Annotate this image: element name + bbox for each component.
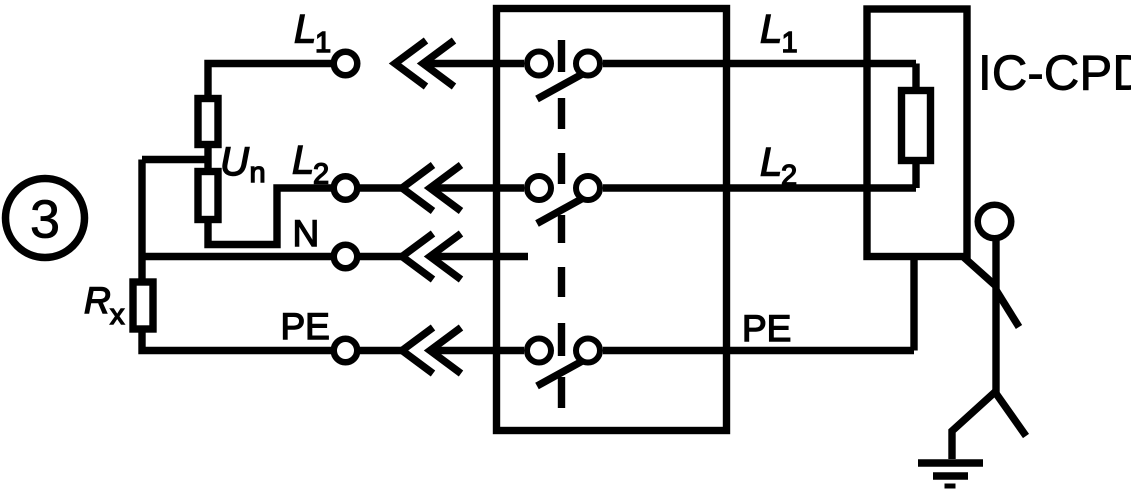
box plug/socket interface (497, 9, 727, 431)
switch L1 contact left (527, 52, 551, 76)
terminal PE (334, 339, 358, 363)
switch L2 blade (537, 197, 586, 224)
wire L1 top-left from Un to terminal (208, 64, 331, 96)
wire Un bottom to L2 terminal (208, 188, 331, 245)
dashed linkage line (558, 40, 565, 408)
arrow chevrons N (402, 234, 461, 280)
svg-text:IC-CPD: IC-CPD (978, 47, 1131, 101)
wire PE shaft (430, 347, 524, 354)
wire Rx bottom to PE terminal (142, 333, 331, 351)
arrow chevrons L2 (402, 165, 461, 211)
svg-text:3: 3 (30, 190, 60, 250)
box IC-CPD (867, 9, 967, 257)
svg-text:2: 2 (313, 159, 329, 191)
resistor Un upper half (198, 99, 218, 145)
switch L2 contact left (527, 176, 551, 200)
person right leg (995, 392, 1026, 436)
wire PE terminal to arrow (360, 347, 402, 354)
svg-text:L: L (760, 8, 782, 52)
svg-text:n: n (250, 157, 266, 189)
svg-text:1: 1 (782, 27, 798, 59)
ground bar 1 (918, 459, 983, 466)
person arm touching box (964, 258, 997, 288)
svg-text:R: R (84, 280, 111, 321)
terminal L1 (334, 52, 358, 76)
wire tee from Un midpoint to left rail (142, 156, 208, 163)
wire resistor to L2 (912, 160, 919, 188)
wire N line left (142, 253, 331, 260)
switch PE blade (537, 359, 586, 386)
svg-text:L: L (292, 139, 314, 183)
person left leg (952, 392, 995, 459)
wire L1 into IC-CPD resistor (912, 64, 919, 91)
wire L2 terminal to arrow (360, 184, 402, 191)
svg-text:2: 2 (781, 160, 797, 192)
switch PE contact right (576, 339, 600, 363)
terminal L2 (334, 176, 358, 200)
switch L1 contact right (576, 52, 600, 76)
resistor inside IC-CPD (902, 91, 931, 161)
person head (978, 205, 1012, 239)
switch L2 contact right (576, 176, 600, 200)
resistor Rx (133, 282, 153, 329)
wire PE up to IC-CPD bottom (910, 257, 917, 351)
wire L2 right (603, 184, 916, 191)
ground bar 2 (933, 472, 968, 479)
svg-text:PE: PE (281, 306, 330, 347)
node circled 3 (6, 179, 85, 258)
terminal N (334, 245, 358, 269)
svg-text:L: L (294, 8, 316, 52)
wire L2 shaft (430, 184, 524, 191)
svg-text:N: N (293, 213, 320, 254)
arrow chevrons L1 (395, 41, 454, 87)
wire L1 shaft (423, 60, 524, 67)
person arm right (996, 290, 1019, 327)
arrow chevrons PE (402, 328, 461, 374)
ground bar 3 (945, 484, 956, 489)
wire L1 right (603, 60, 916, 67)
svg-text:1: 1 (315, 27, 331, 59)
svg-text:U: U (220, 140, 250, 184)
wire left rail down (138, 160, 145, 279)
switch PE contact left (527, 339, 551, 363)
wire PE right (603, 347, 914, 354)
wire N shaft (430, 253, 528, 260)
wire between Un resistors (204, 148, 211, 168)
svg-text:L: L (760, 141, 782, 185)
person body (992, 240, 999, 394)
resistor Un lower half (198, 172, 218, 220)
svg-text:x: x (110, 299, 125, 331)
svg-text:PE: PE (742, 308, 791, 349)
wire N terminal to arrow (360, 253, 402, 260)
switch L1 blade (537, 72, 586, 99)
